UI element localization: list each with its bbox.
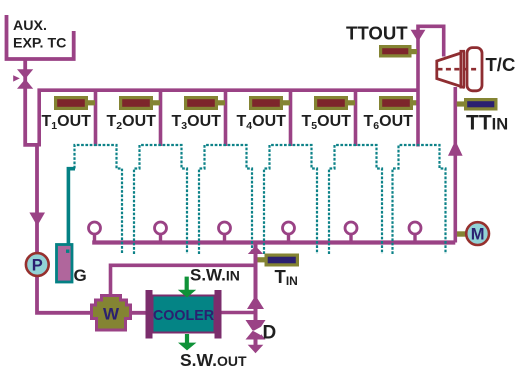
valve D — [246, 320, 266, 340]
wire: left pipe from tank down to pump and to W — [25, 59, 145, 313]
sea water outlet arrow — [178, 334, 196, 350]
svg-text:M: M — [471, 226, 485, 244]
wire: sensor manifold box (left edge + top) — [39, 90, 418, 146]
svg-text:D: D — [263, 323, 277, 344]
svg-text:T/C: T/C — [486, 54, 516, 75]
svg-text:AUX.: AUX. — [13, 18, 47, 34]
vent cock 1 — [89, 222, 101, 241]
vent cock 6 — [409, 222, 421, 241]
svg-text:W: W — [103, 305, 120, 324]
valve: AUX expansion line valve — [13, 69, 33, 88]
svg-text:P: P — [32, 257, 43, 275]
svg-text:EXP. TC: EXP. TC — [13, 36, 66, 52]
temperature sensor TTOUT — [379, 45, 417, 58]
pump P — [26, 253, 49, 276]
temperature sensor T1OUT — [54, 96, 95, 110]
fresh water heater W (stepped block) — [92, 296, 131, 331]
gauge G — [57, 245, 73, 283]
svg-text:S.W.IN: S.W.IN — [190, 266, 240, 285]
wire: gauge sensing line (teal solid) — [68, 169, 75, 244]
svg-text:T2OUT: T2OUT — [107, 113, 157, 132]
arrow: flow up from cooler — [247, 296, 264, 310]
svg-text:T4OUT: T4OUT — [237, 113, 287, 132]
vent cock 5 — [345, 222, 357, 241]
arrow: flow down from cylinders — [411, 30, 426, 42]
temperature sensor T6OUT — [379, 96, 418, 110]
engine cylinder 4 (dashed) — [264, 145, 317, 254]
engine cylinder 3 (dashed) — [199, 145, 252, 254]
engine cylinder 2 (dashed) — [134, 145, 187, 254]
cooler — [146, 290, 222, 339]
main water pipe (bottom header) — [92, 240, 455, 244]
arrow: flow down to pump — [29, 213, 45, 227]
drain / T_IN tap line — [254, 244, 258, 347]
temperature sensor TIN — [258, 254, 300, 267]
svg-text:T1OUT: T1OUT — [42, 113, 92, 132]
svg-text:COOLER: COOLER — [153, 307, 214, 324]
svg-text:S.W.OUT: S.W.OUT — [180, 350, 247, 370]
wire: turbine inlet line down to header — [453, 87, 457, 243]
arrow: flow up into header — [248, 246, 263, 254]
temperature sensor TTIN — [457, 98, 498, 111]
svg-text:G: G — [74, 266, 87, 285]
vent cock circles on header — [89, 222, 422, 241]
turbocharger T/C — [437, 48, 482, 91]
arrow: drain down — [248, 345, 264, 353]
svg-text:TTIN: TTIN — [466, 112, 508, 135]
temperature sensor T3OUT — [184, 96, 225, 110]
engine cylinder 1 (dashed) with solid gauge line on left — [75, 145, 123, 254]
vent cock 4 — [283, 222, 295, 241]
engine cylinder 5 (dashed) — [329, 145, 382, 254]
engine cylinder 6 (dashed) — [393, 145, 446, 254]
svg-text:TTOUT: TTOUT — [346, 23, 408, 44]
vent cock 3 — [219, 222, 231, 241]
svg-text:T5OUT: T5OUT — [302, 113, 352, 132]
arrow: flow up to turbine — [448, 141, 463, 156]
svg-text:T6OUT: T6OUT — [364, 113, 414, 132]
vent cock 2 — [155, 222, 167, 241]
wire: turbine outlet line (manifold right edge up to T/C) — [418, 26, 444, 146]
wire: manifold dividers / cylinder feed stubs — [96, 90, 356, 146]
wire: W top stub to drain line — [111, 265, 256, 295]
sea water inlet arrow — [178, 277, 196, 298]
svg-text:T3OUT: T3OUT — [172, 113, 222, 132]
motor M — [457, 222, 489, 245]
wire: AUX expansion tank outline — [7, 15, 74, 59]
temperature sensor T2OUT — [119, 96, 160, 110]
pipe: cooler outlet to drain line — [222, 311, 256, 315]
temperature sensor T5OUT — [314, 96, 355, 110]
temperature sensor T4OUT — [249, 96, 290, 110]
